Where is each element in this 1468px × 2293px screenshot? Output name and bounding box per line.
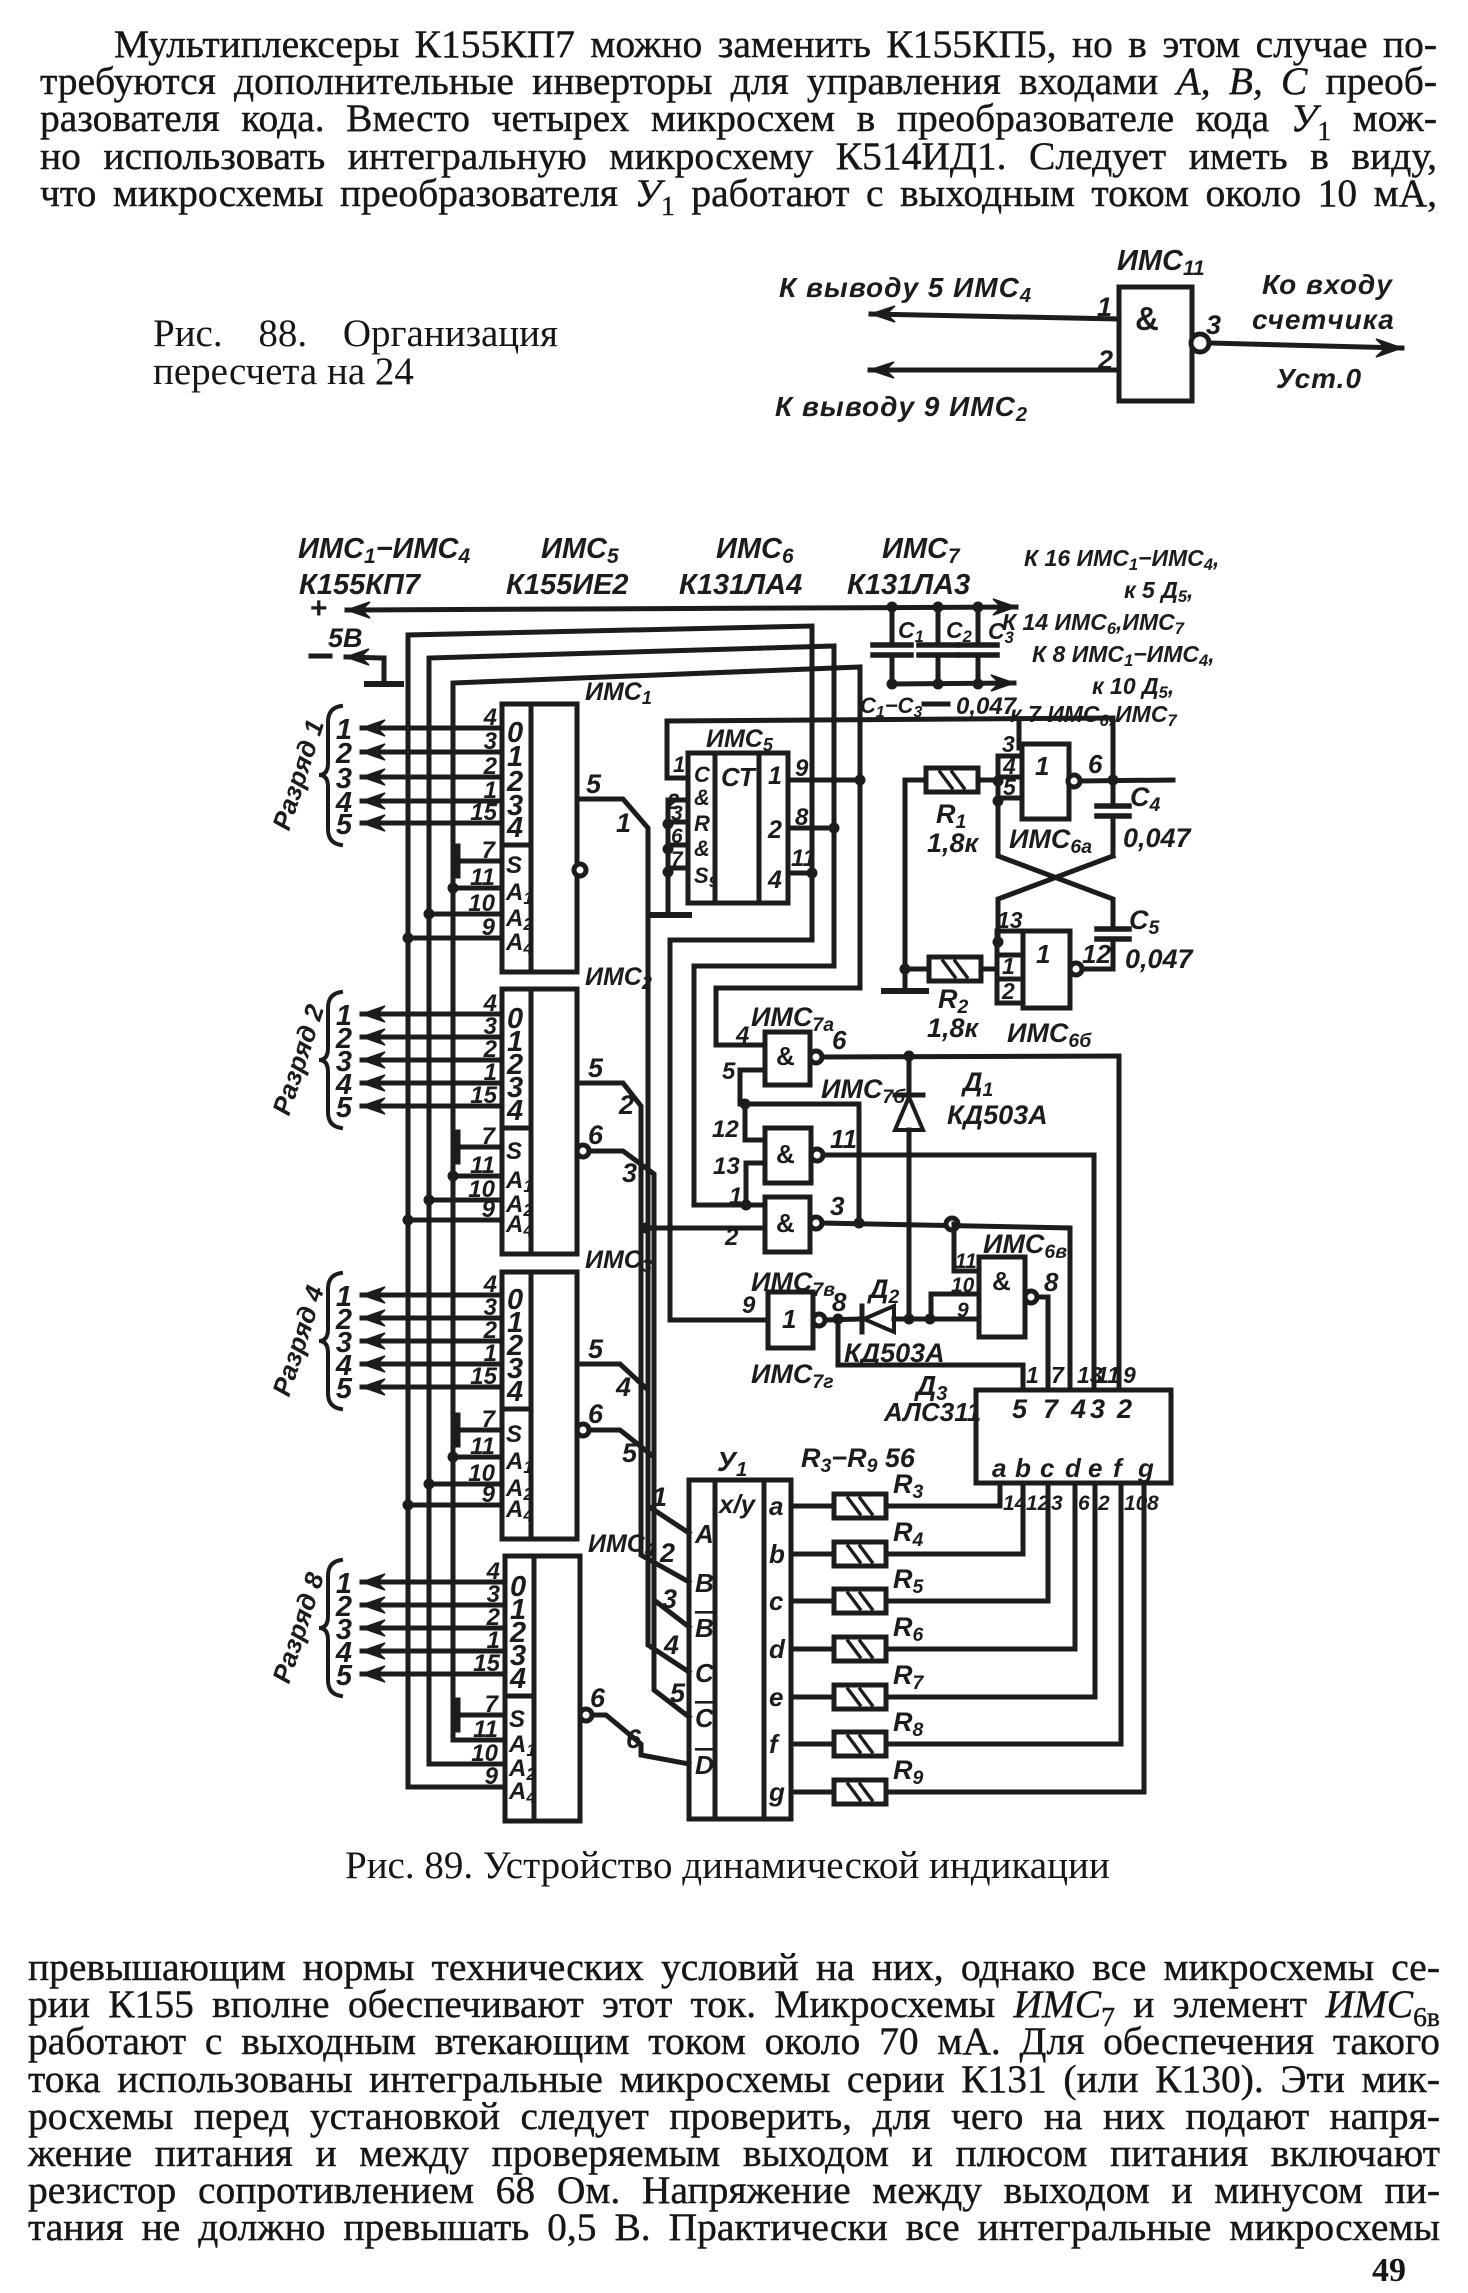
ИМС7в pin 2 net <box>646 1226 765 1231</box>
svg-text:&: & <box>776 1139 795 1169</box>
svg-text:R3: R3 <box>893 1469 924 1503</box>
svg-text:К131ЛА4: К131ЛА4 <box>679 569 802 601</box>
resistor R7 <box>791 1695 834 1700</box>
svg-text:R4: R4 <box>893 1517 924 1551</box>
svg-text:6: 6 <box>590 1683 606 1713</box>
svg-text:6: 6 <box>832 1025 847 1055</box>
svg-text:2: 2 <box>1001 978 1015 1004</box>
svg-text:К 14 ИМС6,ИМС7: К 14 ИМС6,ИМС7 <box>1002 609 1185 638</box>
svg-text:R5: R5 <box>893 1564 925 1598</box>
svg-text:D: D <box>695 1750 714 1780</box>
cross-coupling wires <box>998 798 1113 925</box>
svg-text:4: 4 <box>509 1663 526 1695</box>
svg-text:f: f <box>1113 1453 1124 1483</box>
svg-text:0,047: 0,047 <box>1123 823 1193 853</box>
resistor R3 <box>791 1504 834 1509</box>
svg-text:КД503А: КД503А <box>947 1100 1048 1130</box>
svg-text:R6: R6 <box>893 1612 924 1646</box>
NAND gate ИМС11 <box>1119 287 1192 401</box>
svg-text:4: 4 <box>506 1376 523 1408</box>
svg-text:6: 6 <box>1088 749 1103 779</box>
resistor R9 <box>791 1790 834 1795</box>
svg-text:S: S <box>506 852 522 879</box>
svg-text:&: & <box>694 836 710 861</box>
svg-text:ИМС6б: ИМС6б <box>1007 1018 1092 1052</box>
svg-text:4: 4 <box>1070 1394 1086 1424</box>
svg-text:R9: R9 <box>893 1755 924 1789</box>
svg-text:5: 5 <box>722 1058 736 1085</box>
svg-text:13: 13 <box>997 907 1023 933</box>
resistor R8 <box>791 1742 834 1747</box>
svg-text:1: 1 <box>1035 751 1049 781</box>
svg-text:c: c <box>1040 1453 1055 1483</box>
svg-text:К 16 ИМС1−ИМС4,: К 16 ИМС1−ИМС4, <box>1024 545 1219 574</box>
wire to АЛС311 pin 13 <box>1068 1228 1073 1389</box>
svg-text:1,8к: 1,8к <box>927 828 980 858</box>
svg-text:ИМС2: ИМС2 <box>585 963 652 993</box>
svg-text:11: 11 <box>830 1124 857 1154</box>
wire bus A4 loop <box>408 626 812 1787</box>
diode Д1 КД503А <box>907 1056 912 1094</box>
svg-text:5: 5 <box>670 1678 686 1708</box>
svg-text:Д2: Д2 <box>867 1274 900 1308</box>
ground under ИМС5 <box>653 912 689 918</box>
svg-text:12: 12 <box>1082 939 1111 969</box>
svg-text:5: 5 <box>336 1373 353 1405</box>
svg-text:5В: 5В <box>328 623 363 653</box>
svg-text:2: 2 <box>767 816 782 844</box>
minus sign <box>311 654 330 659</box>
svg-text:ИМС1: ИМС1 <box>585 678 652 708</box>
svg-text:счетчика: счетчика <box>1252 304 1395 335</box>
Fig 88 caption <box>153 311 558 356</box>
svg-text:С: С <box>695 1703 715 1733</box>
resistor R5 <box>791 1599 834 1604</box>
multiplexer ИМС2 К155КП7 <box>502 989 577 1254</box>
svg-text:5: 5 <box>588 1053 604 1083</box>
svg-text:5: 5 <box>588 1334 604 1364</box>
svg-text:ИМС6: ИМС6 <box>716 533 794 568</box>
wire to pin1 with arrow: К выводу 5 ИМС4 <box>871 314 1119 319</box>
svg-text:8: 8 <box>1044 1267 1059 1297</box>
svg-text:к 10 Д5,: к 10 Д5, <box>1092 673 1174 702</box>
output wire to counter input <box>1209 343 1402 348</box>
svg-text:6: 6 <box>626 1724 642 1754</box>
inverter ИМС6б <box>1023 931 1070 1008</box>
svg-text:К155ИЕ2: К155ИЕ2 <box>506 569 629 601</box>
svg-text:3: 3 <box>662 1584 677 1614</box>
svg-text:S: S <box>506 1138 522 1165</box>
svg-text:b: b <box>769 1539 785 1569</box>
svg-text:1: 1 <box>673 752 685 777</box>
output pin 3 with inversion circle <box>1191 334 1209 352</box>
svg-text:1: 1 <box>768 762 782 790</box>
svg-text:&: & <box>776 1041 795 1071</box>
svg-text:4: 4 <box>506 812 523 844</box>
svg-text:ИМС5: ИМС5 <box>541 533 619 568</box>
wire to АЛС311 pin 9 <box>1117 1056 1122 1389</box>
multiplexer ИМС1 К155КП7 <box>502 704 577 972</box>
svg-text:5: 5 <box>1003 774 1017 800</box>
svg-text:2: 2 <box>1116 1394 1132 1424</box>
svg-text:5: 5 <box>1012 1394 1028 1424</box>
svg-text:СТ: СТ <box>721 762 757 792</box>
ground under R2 <box>884 988 926 994</box>
svg-text:5: 5 <box>622 1438 638 1468</box>
ground rail under caps with arrow <box>892 683 1014 684</box>
svg-text:К выводу 9 ИМС2: К выводу 9 ИМС2 <box>775 391 1028 426</box>
svg-text:У1: У1 <box>717 1446 747 1481</box>
svg-text:a: a <box>992 1453 1006 1483</box>
svg-text:0,047: 0,047 <box>956 693 1018 720</box>
ИМС6в pin 10 net <box>931 1294 979 1319</box>
top paragraph <box>40 26 1437 212</box>
svg-text:1: 1 <box>616 808 631 838</box>
svg-text:1: 1 <box>652 1482 667 1512</box>
svg-text:АЛС311: АЛС311 <box>883 1397 981 1427</box>
bottom paragraph <box>28 1949 1440 2247</box>
svg-text:3: 3 <box>1051 1492 1063 1515</box>
svg-text:e: e <box>1088 1453 1102 1483</box>
svg-text:ИМС7: ИМС7 <box>882 533 961 568</box>
svg-text:5: 5 <box>336 809 353 841</box>
svg-text:С: С <box>694 762 711 787</box>
ИМС5 clock net from multivibrator <box>667 718 1113 780</box>
svg-text:1: 1 <box>729 1183 742 1210</box>
svg-text:2: 2 <box>1097 1492 1110 1515</box>
multiplexer ИМС3 К155КП7 <box>502 1272 577 1539</box>
svg-text:0,047: 0,047 <box>1125 944 1195 974</box>
svg-text:ИМС1−ИМС4: ИМС1−ИМС4 <box>298 533 471 568</box>
wire Q2 to ИМС7в <box>694 828 834 1205</box>
svg-text:1: 1 <box>1026 1362 1039 1388</box>
NAND gate ИМС7в <box>765 1197 810 1252</box>
svg-text:12: 12 <box>712 1116 739 1143</box>
svg-text:С4: С4 <box>1130 782 1161 816</box>
svg-text:ИМС7г: ИМС7г <box>751 1359 834 1393</box>
svg-text:13: 13 <box>713 1153 740 1180</box>
wire to pin2 with arrow: К выводу 9 ИМС2 <box>870 368 1119 373</box>
ИМС7в output 3 wire <box>822 1223 1070 1228</box>
svg-text:&: & <box>694 785 710 810</box>
resistor R6 <box>791 1647 834 1652</box>
svg-text:c: c <box>769 1586 784 1616</box>
svg-text:К 8 ИМС1−ИМС4,: К 8 ИМС1−ИМС4, <box>1032 641 1215 670</box>
svg-text:4: 4 <box>506 1095 523 1127</box>
ИМС7б pin 13 net <box>746 1163 765 1205</box>
svg-text:х/у: х/у <box>717 1489 757 1519</box>
svg-text:9: 9 <box>1123 1362 1136 1388</box>
capacitor C5 0,047 <box>1097 926 1129 932</box>
svg-text:b: b <box>1015 1453 1031 1483</box>
wire bus A2 loop <box>429 646 834 1764</box>
ИМС5 output 8 wire <box>788 826 834 831</box>
ИМС6а output 6 wire to C4 and gates <box>1080 780 1173 781</box>
svg-text:6: 6 <box>1078 1492 1090 1515</box>
svg-text:5: 5 <box>336 1660 353 1692</box>
multiplexer ИМС4 К155КП7 <box>505 1556 580 1821</box>
svg-text:S: S <box>509 1706 525 1733</box>
svg-text:ИМС7б: ИМС7б <box>821 1074 906 1108</box>
svg-text:С: С <box>695 1658 715 1688</box>
capacitor C1 <box>890 607 895 645</box>
svg-text:В: В <box>695 1613 714 1643</box>
svg-text:4: 4 <box>735 1022 749 1049</box>
svg-text:g: g <box>768 1777 785 1807</box>
wire Q4 to ИМС7г <box>670 873 812 1320</box>
svg-text:7: 7 <box>1043 1394 1060 1424</box>
svg-text:&: & <box>776 1208 795 1238</box>
svg-text:ИМС11: ИМС11 <box>1117 245 1205 280</box>
svg-text:4: 4 <box>767 866 782 894</box>
svg-text:d: d <box>769 1634 786 1664</box>
wire bus A1 loop <box>453 667 860 1740</box>
svg-text:9: 9 <box>742 1292 756 1319</box>
svg-text:a: a <box>769 1491 783 1521</box>
svg-text:К131ЛА3: К131ЛА3 <box>847 569 970 601</box>
svg-text:К выводу 5 ИМС4: К выводу 5 ИМС4 <box>779 272 1032 307</box>
svg-text:6: 6 <box>588 1120 604 1150</box>
wire Q1 to ИМС7а <box>716 780 860 1045</box>
svg-text:Ко входу: Ко входу <box>1262 269 1393 300</box>
wire to ИМС6в pin 11 <box>954 1224 979 1271</box>
svg-text:3: 3 <box>1090 1394 1105 1424</box>
svg-text:С2: С2 <box>946 617 973 646</box>
ИМС7а output 6 wire <box>822 1056 1119 1057</box>
svg-text:d: d <box>1065 1453 1082 1483</box>
svg-text:S: S <box>506 1421 522 1448</box>
svg-text:1,8к: 1,8к <box>927 1013 980 1043</box>
ИМС7б output 11 wire to АЛС311 pin 11 <box>823 1153 1094 1158</box>
svg-text:Д1: Д1 <box>961 1067 993 1101</box>
svg-text:6: 6 <box>588 1399 604 1429</box>
svg-text:А: А <box>694 1519 714 1549</box>
svg-text:ИМС6а: ИМС6а <box>1009 824 1092 858</box>
svg-text:9: 9 <box>957 1299 969 1322</box>
svg-text:ИМС7в: ИМС7в <box>751 1267 835 1301</box>
svg-text:4: 4 <box>615 1372 631 1402</box>
svg-text:11: 11 <box>955 1250 977 1273</box>
svg-text:3: 3 <box>1206 310 1221 340</box>
svg-text:1: 1 <box>1036 939 1050 969</box>
svg-text:Уст.0: Уст.0 <box>1276 363 1362 394</box>
svg-text:R8: R8 <box>893 1707 924 1741</box>
svg-text:R: R <box>694 811 710 836</box>
diode Д2 КД503А <box>825 1319 862 1320</box>
svg-text:8: 8 <box>1147 1492 1159 1515</box>
ИМС5 output 11 wire <box>788 871 812 876</box>
wire R1-R2 common to ground <box>905 780 926 969</box>
ИМС7а pin5 net <box>740 1070 859 1223</box>
page number <box>1372 2252 1406 2290</box>
svg-text:5: 5 <box>336 1092 353 1124</box>
svg-text:8: 8 <box>832 1287 847 1317</box>
ИМС5 output 9 wire <box>788 778 860 783</box>
svg-text:2: 2 <box>618 1090 634 1120</box>
inverter ИМС6а <box>1022 744 1069 819</box>
svg-text:7: 7 <box>1051 1362 1065 1388</box>
resistor R4 <box>791 1552 834 1557</box>
inverter ИМС7г <box>768 1292 813 1348</box>
svg-text:11: 11 <box>1096 1362 1120 1388</box>
svg-text:4: 4 <box>663 1630 679 1660</box>
svg-text:3: 3 <box>830 1191 845 1221</box>
svg-text:1: 1 <box>782 1304 796 1334</box>
ИМС7б pin 12 net <box>745 1104 765 1140</box>
resistor R2 1,8к <box>929 957 981 981</box>
capacitor C2 <box>936 607 941 645</box>
resistor R1 1,8к <box>926 768 978 792</box>
capacitor C3 <box>976 607 981 645</box>
ИМС5 R/S inputs to ground <box>666 811 671 912</box>
Fig 89 caption <box>345 1843 1110 1888</box>
svg-text:В: В <box>695 1568 714 1598</box>
ИМС6в output 8 wire to АЛС311 pin 7 <box>1037 1297 1048 1389</box>
svg-text:С1: С1 <box>898 617 924 646</box>
svg-text:3: 3 <box>622 1158 637 1188</box>
svg-text:5: 5 <box>586 769 602 799</box>
wire Д2 node to АЛС311 pin 1 <box>838 1319 1023 1389</box>
svg-text:R7: R7 <box>893 1660 925 1694</box>
svg-text:С1−С3: С1−С3 <box>860 693 922 721</box>
svg-text:2: 2 <box>659 1538 675 1568</box>
capacitor C4 0,047 <box>1111 780 1116 803</box>
svg-text:+: + <box>310 592 328 625</box>
svg-text:1: 1 <box>1002 953 1015 979</box>
svg-text:к 5 Д5,: к 5 Д5, <box>1124 577 1193 606</box>
svg-text:&: & <box>992 1266 1011 1296</box>
svg-text:e: e <box>769 1682 783 1712</box>
svg-text:&: & <box>1135 300 1159 337</box>
svg-text:f: f <box>769 1729 780 1759</box>
svg-text:g: g <box>1137 1453 1154 1483</box>
svg-text:С5: С5 <box>1129 905 1161 939</box>
svg-text:к 7 ИМС6,ИМС7: к 7 ИМС6,ИМС7 <box>1010 701 1177 730</box>
